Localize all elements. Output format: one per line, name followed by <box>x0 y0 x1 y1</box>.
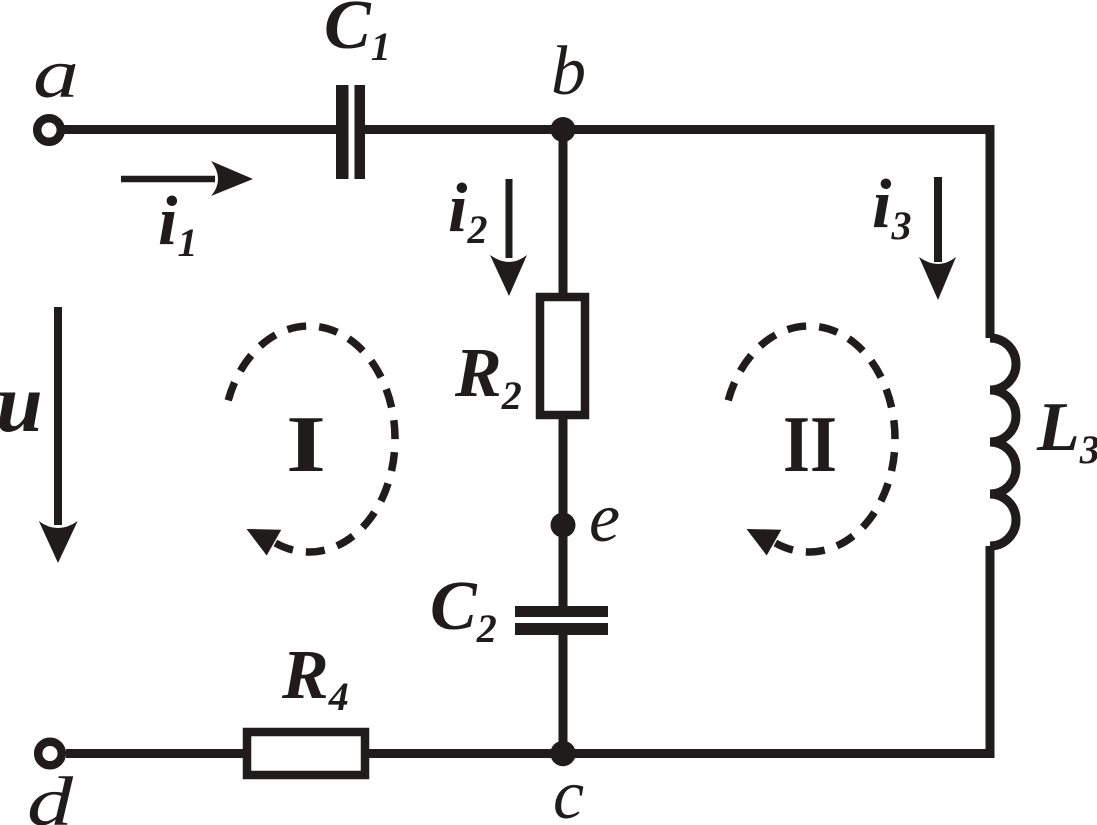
svg-text:L3: L3 <box>1036 389 1097 472</box>
svg-text:R2: R2 <box>454 335 522 418</box>
svg-text:II: II <box>783 401 837 489</box>
svg-text:R4: R4 <box>281 637 349 719</box>
svg-text:i1: i1 <box>158 183 197 265</box>
svg-text:u: u <box>0 357 43 450</box>
svg-text:C2: C2 <box>430 568 497 651</box>
svg-text:c: c <box>553 757 584 825</box>
svg-text:C1: C1 <box>324 0 391 69</box>
svg-text:a: a <box>33 36 79 113</box>
svg-text:d: d <box>27 764 74 825</box>
svg-text:i2: i2 <box>448 170 487 252</box>
svg-text:I: I <box>286 401 326 489</box>
svg-text:b: b <box>551 33 586 110</box>
svg-text:e: e <box>589 480 620 557</box>
svg-text:i3: i3 <box>872 166 911 248</box>
